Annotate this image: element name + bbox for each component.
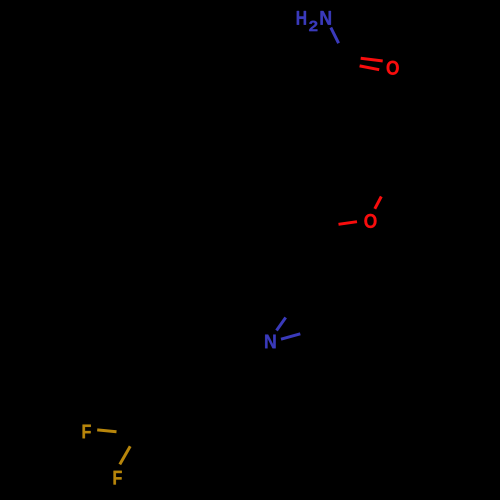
wire: bond ring N-C up-right, blue half: [277, 318, 286, 331]
wire: double bond C=O upper line, red half: [361, 58, 383, 61]
atom label glyph fluorine F2: [114, 471, 122, 485]
wire: bond H2N-C(amide) blue half: [331, 28, 339, 44]
atom label glyph fluorine F1: [83, 425, 91, 439]
atom label glyph amide H: [297, 11, 306, 25]
atom label glyph ring N: [265, 335, 275, 349]
atom label glyph ether O: [364, 214, 376, 228]
wire: bond ring N-C right, blue half: [281, 334, 300, 339]
wire: bond ether O-C up-right, red half: [375, 197, 382, 209]
atom label glyph amide N: [320, 11, 330, 25]
wire: bond F1-C right, gold half: [97, 430, 116, 432]
wire: bond F2-C diagonal, gold half: [120, 446, 130, 464]
atom label glyph carbonyl O: [387, 61, 399, 75]
atom label glyph subscript 2: [309, 21, 317, 31]
wire: double bond C=O lower line, red half: [360, 66, 380, 70]
wire: bond ether O-C left, red half: [339, 222, 358, 225]
